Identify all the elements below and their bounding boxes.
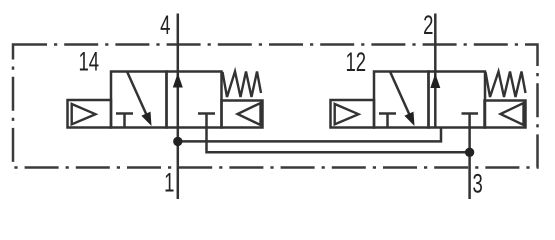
wire port 4 vertical line bbox=[177, 14, 180, 128]
junction node on port 3 line bbox=[465, 148, 474, 157]
enclosure dash-dot boundary bbox=[13, 45, 538, 168]
valve V1 pilot triangle bbox=[238, 103, 261, 125]
valve V2 blocked port T in right box bbox=[462, 114, 479, 128]
svg-text:3: 3 bbox=[473, 168, 483, 198]
wire exhaust line from valve V1 to port 3 bbox=[207, 128, 470, 153]
valve V2 pilot triangle bbox=[501, 103, 524, 125]
junction node on port 1 line bbox=[173, 137, 182, 146]
valve V2 rest-position flow arrow (1 to 2) bbox=[430, 74, 440, 89]
solenoid actuator Y1 box bbox=[68, 100, 112, 128]
svg-text:12: 12 bbox=[346, 47, 367, 77]
valve V1 blocked port T in right box bbox=[198, 114, 215, 128]
svg-text:14: 14 bbox=[79, 46, 100, 76]
valve V1 return spring bbox=[223, 72, 262, 98]
valve V2 return spring bbox=[486, 72, 526, 98]
valve V1 pilot box bbox=[222, 101, 263, 128]
valve V1 actuated-position flow path arrow (4 to 3) bbox=[127, 72, 152, 127]
valve V1 rest-position flow arrow (1 to 4) bbox=[173, 73, 183, 88]
solenoid actuator Y2 triangle bbox=[335, 104, 359, 124]
solenoid actuator Y2 box bbox=[331, 100, 375, 128]
valve V1 blocked port T in left box bbox=[116, 114, 133, 128]
solenoid actuator Y1 triangle bbox=[72, 104, 96, 124]
valve V2 body boxes bbox=[374, 72, 485, 128]
svg-text:2: 2 bbox=[423, 10, 433, 40]
valve V2 actuated-position flow path arrow (2 to 3) bbox=[390, 72, 415, 127]
svg-text:1: 1 bbox=[164, 167, 174, 197]
wire port 3 vertical line bbox=[468, 128, 471, 200]
valve V1 body boxes bbox=[111, 72, 222, 128]
wire supply line 1 to valve V2 bbox=[178, 128, 441, 142]
wire port 1 vertical line bbox=[177, 128, 180, 200]
svg-text:4: 4 bbox=[160, 10, 171, 40]
wire port 2 vertical line bbox=[434, 14, 437, 128]
valve V2 blocked port T in left box bbox=[379, 114, 396, 128]
valve V2 pilot box bbox=[485, 101, 526, 128]
